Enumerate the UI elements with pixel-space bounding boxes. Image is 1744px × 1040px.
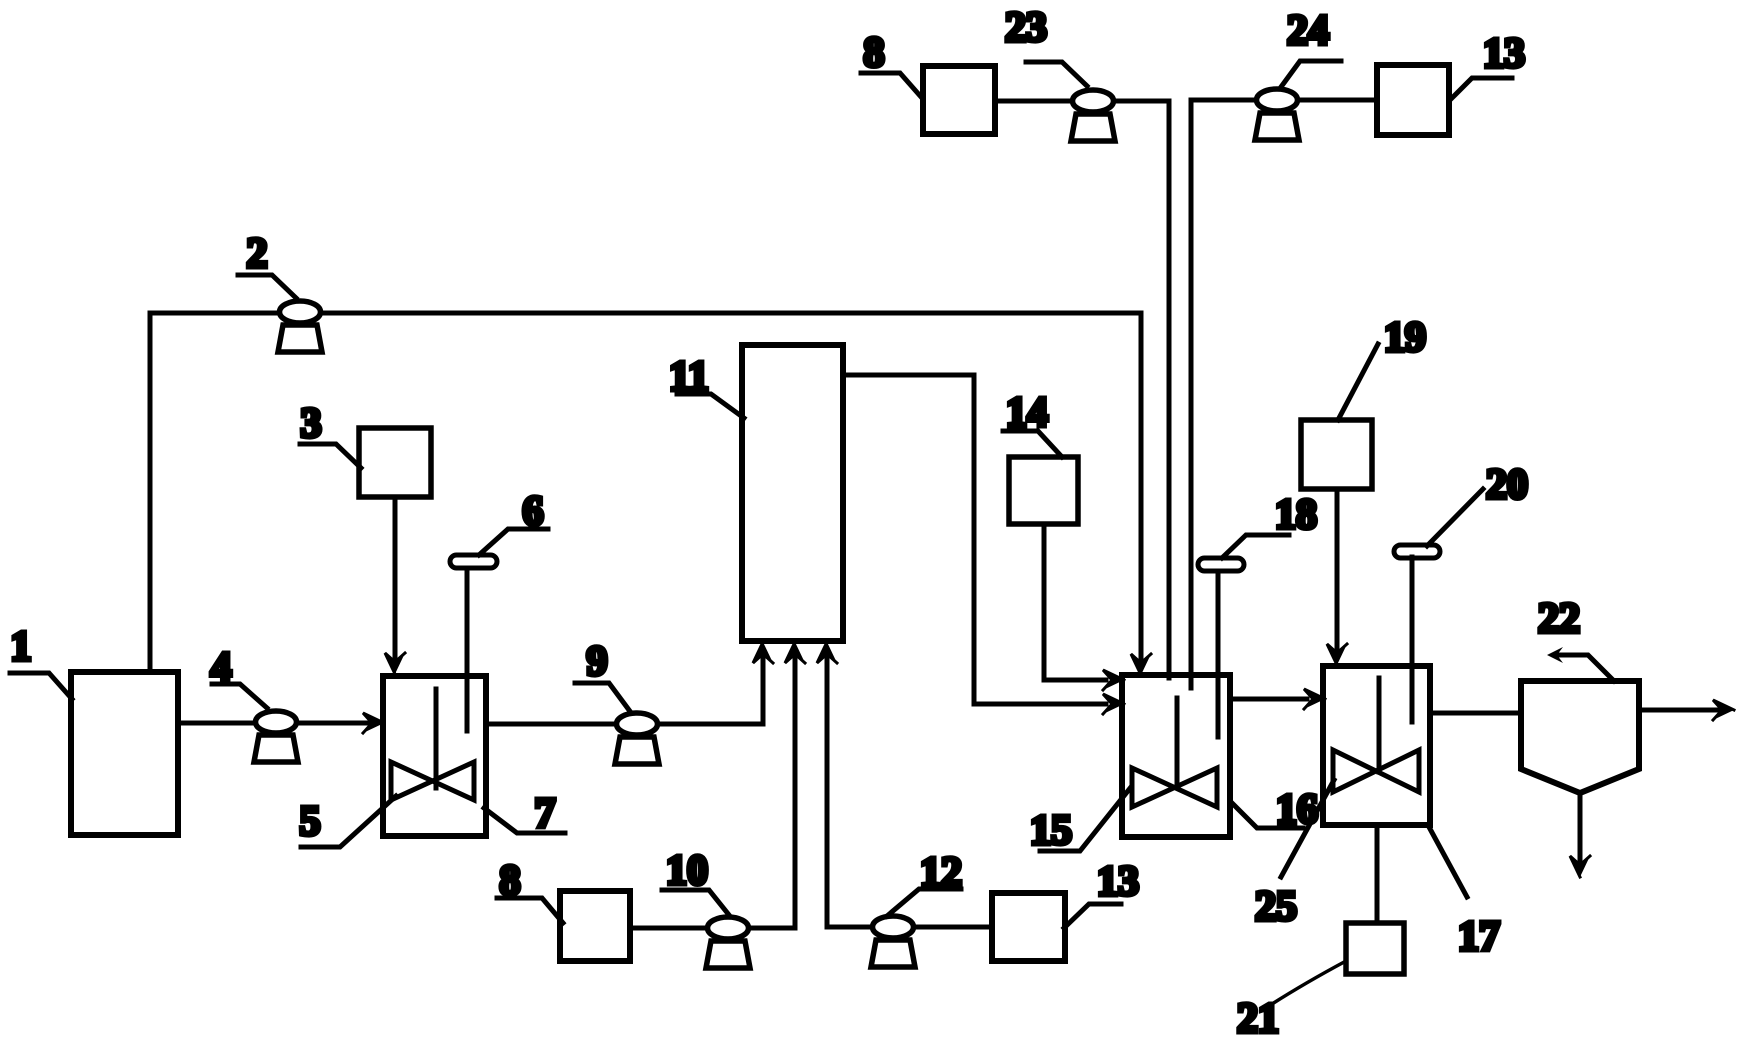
dip tube 20 shaft: [1410, 557, 1415, 722]
svg-text:9: 9: [587, 639, 608, 685]
svg-text:24: 24: [1287, 8, 1329, 54]
label 5: [300, 796, 397, 847]
wire reactor 15 to reactor 17: [1230, 697, 1307, 702]
wire box 1 to pump 4: [178, 721, 255, 726]
wire box 19 down to reactor 17: [1335, 489, 1340, 652]
box 13 (bottom): [992, 893, 1065, 961]
svg-text:25: 25: [1255, 884, 1297, 930]
label 10: [662, 848, 729, 915]
box 19: [1301, 420, 1372, 489]
label 16: [1231, 787, 1318, 833]
wire settler 22 outlet right: [1639, 708, 1720, 713]
svg-text:8: 8: [864, 30, 885, 76]
label 19: [1338, 315, 1426, 420]
arrowhead into column 11 bottom (right): [817, 642, 837, 663]
label 6: [479, 489, 548, 555]
label 8 top: [861, 30, 922, 98]
box 21: [1346, 923, 1404, 974]
cap 20: [1394, 545, 1440, 558]
pump 2: [278, 301, 322, 352]
reactor 5 vessel: [383, 676, 486, 836]
arrowhead into reactor 5 left: [363, 713, 384, 733]
svg-text:1: 1: [11, 624, 32, 670]
label 7: [484, 791, 565, 837]
column 11: [742, 345, 843, 641]
wire reactor 17 to settler 22: [1430, 711, 1521, 716]
arrowhead into reactor 15 top: [1131, 654, 1151, 675]
wire box 14 to reactor 15: [1044, 524, 1106, 680]
box 8 (top): [923, 66, 995, 134]
wire box 8 to pump 10: [630, 926, 707, 931]
label 25: [1255, 780, 1334, 930]
label 14: [1003, 390, 1062, 457]
box 14: [1009, 457, 1078, 524]
label 18: [1222, 492, 1317, 558]
svg-text:13: 13: [1097, 859, 1139, 905]
wire pump 23 down into reactor 15: [1114, 101, 1169, 678]
pump 23: [1071, 90, 1115, 141]
impeller reactor 15: [1132, 768, 1217, 807]
wire reactor 5 to pump 9: [486, 722, 616, 727]
label 20: [1427, 462, 1528, 546]
label 11: [669, 354, 744, 418]
label 17: [1429, 827, 1500, 960]
pump 10: [706, 917, 750, 968]
label 24: [1281, 8, 1341, 87]
label 15: [1030, 787, 1131, 854]
label 12: [887, 850, 962, 916]
box 3: [359, 428, 431, 497]
arrowhead into reactor 15 left (lower): [1103, 694, 1124, 714]
label 23: [1005, 5, 1087, 86]
svg-text:18: 18: [1275, 492, 1317, 538]
label 2: [238, 231, 296, 298]
wire column 11 top to reactor 15: [843, 375, 1106, 704]
svg-text:20: 20: [1486, 462, 1528, 508]
cap 18: [1198, 558, 1244, 571]
settler 22 vessel: [1521, 681, 1639, 793]
wire reactor 17 down to box 21: [1375, 825, 1380, 923]
impeller reactor 5: [391, 762, 474, 800]
wire pump 9 up into column 11: [658, 655, 763, 724]
label 9: [575, 639, 629, 710]
arrowhead into reactor 15 left (upper): [1103, 670, 1124, 690]
wire pump 4 to reactor 5: [297, 721, 368, 726]
wire box 13 to pump 24: [1298, 98, 1377, 103]
arrowhead outlet bottom: [1570, 856, 1590, 877]
arrowhead into column 11 bottom (middle): [785, 642, 805, 663]
stirrer shaft reactor 17: [1377, 678, 1382, 772]
svg-text:2: 2: [247, 231, 268, 277]
wire box 3 down to reactor 5: [393, 497, 398, 660]
svg-text:5: 5: [300, 799, 321, 845]
label 13 bottom: [1064, 859, 1139, 928]
wire box 13 to pump 12: [914, 925, 992, 930]
box 1: [71, 672, 178, 835]
stirrer shaft reactor 15: [1175, 698, 1180, 787]
dip tube 18 shaft: [1216, 571, 1221, 737]
svg-text:13: 13: [1483, 31, 1525, 77]
wire pump 24 down into reactor 15: [1191, 100, 1256, 688]
label 8 bottom: [497, 858, 563, 923]
arrowhead into column 11 bottom (left): [753, 642, 773, 663]
svg-text:23: 23: [1005, 5, 1047, 51]
impeller reactor 17: [1333, 750, 1419, 792]
svg-text:22: 22: [1538, 596, 1580, 642]
dip tube 6 shaft: [465, 568, 470, 731]
label 4: [211, 645, 268, 708]
pump 24: [1255, 89, 1299, 140]
box 13 (top): [1377, 65, 1449, 135]
svg-text:19: 19: [1384, 315, 1426, 361]
pump 12: [871, 916, 915, 967]
wire recycle line from tank 1 top up and across to reactor 15: [150, 313, 1141, 672]
wire pump 12 up into column 11: [827, 655, 872, 927]
svg-text:10: 10: [666, 848, 708, 894]
cap 6: [450, 555, 497, 568]
arrowhead into reactor 17 top: [1327, 644, 1347, 665]
label 13 top: [1450, 31, 1525, 100]
svg-text:7: 7: [535, 791, 556, 837]
reactor 17 vessel: [1323, 666, 1430, 825]
stirrer shaft reactor 5: [434, 689, 439, 788]
svg-text:15: 15: [1030, 808, 1072, 854]
pump 4: [254, 711, 298, 762]
arrowhead outlet right: [1713, 700, 1734, 720]
arrowhead into reactor 17 left: [1304, 689, 1325, 709]
label 1: [10, 624, 72, 699]
label 21: [1237, 961, 1346, 1040]
wire box 8 to pump 23: [995, 99, 1072, 104]
box 8 (bottom): [560, 891, 630, 961]
svg-text:17: 17: [1458, 914, 1500, 960]
wire settler 22 outlet bottom: [1578, 793, 1583, 864]
arrowhead into reactor 5 top: [385, 653, 405, 674]
label 3: [300, 401, 361, 468]
wire pump 10 up into column 11: [749, 655, 795, 928]
label 22: [1538, 596, 1614, 681]
svg-text:3: 3: [301, 401, 322, 447]
reactor 15 vessel: [1122, 675, 1230, 837]
pump 9: [615, 713, 659, 764]
